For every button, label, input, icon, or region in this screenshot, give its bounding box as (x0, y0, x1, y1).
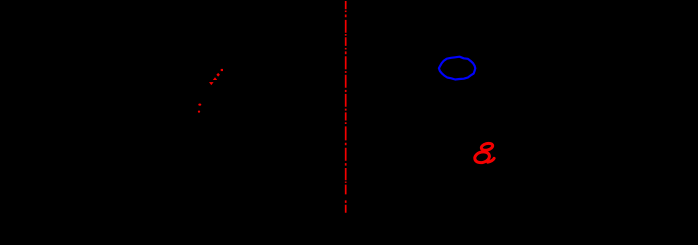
centerline (red dash-dot vertical section line) (345, 1, 347, 213)
leader mark diamond (216, 73, 220, 77)
leader mark square (red dot of dotted leader line) (221, 69, 223, 71)
leader mark triangle down (arrowhead) (209, 82, 214, 85)
leader dot lower (198, 111, 200, 113)
annotation digit 8 (red handwritten) (474, 142, 495, 164)
blue highlight ellipse (hand-drawn annotation circle) (439, 57, 475, 80)
leader dot upper (198, 104, 201, 106)
leader mark triangle up (213, 77, 217, 80)
